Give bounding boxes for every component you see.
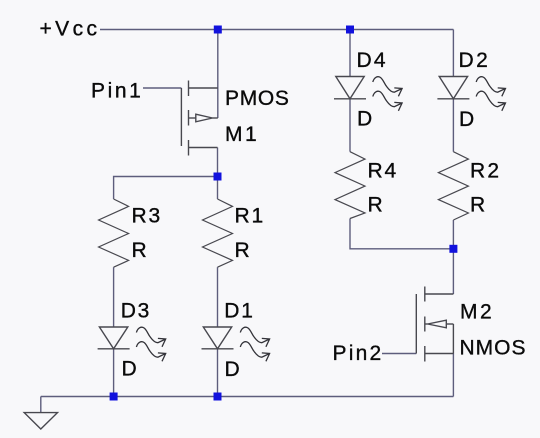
wire node A to R1 top	[217, 177, 219, 200]
svg-text:R: R	[470, 193, 485, 216]
diode D2 LED	[437, 77, 469, 99]
resistor R2	[438, 152, 468, 220]
transistor M1 PMOS	[181, 81, 217, 156]
node junction rail D3	[110, 393, 118, 401]
wire R3 bottom to D3	[113, 267, 115, 327]
wire node to M2 drain	[452, 249, 454, 294]
wire R1 bottom to D1	[217, 267, 219, 327]
svg-text:D: D	[459, 108, 474, 131]
svg-text:R3: R3	[132, 205, 162, 228]
node junction R4 R2 M2	[449, 245, 457, 253]
diode D4 LED	[334, 77, 366, 99]
svg-text:R: R	[368, 193, 383, 216]
wire Pin2 to M2 gate	[382, 353, 416, 355]
wire top Vcc rail	[100, 29, 453, 31]
svg-text:D: D	[122, 358, 137, 381]
node junction top M1	[214, 26, 222, 34]
D1 light arrows	[240, 327, 269, 361]
wire M2 source to ground rail	[452, 354, 454, 397]
ground	[24, 413, 57, 429]
svg-text:PMOS: PMOS	[225, 87, 290, 110]
svg-text:R: R	[132, 239, 147, 262]
svg-text:D2: D2	[459, 49, 491, 72]
wire D3 cathode to ground rail	[113, 349, 115, 397]
wire bottom ground rail	[41, 396, 454, 398]
wire R2 bottom to node	[452, 220, 454, 249]
svg-text:NMOS: NMOS	[460, 336, 527, 359]
svg-text:Pin1: Pin1	[91, 79, 143, 102]
wire R4 bottom to node	[350, 219, 453, 249]
D4 light arrows	[373, 77, 402, 111]
wire node A to R3 top	[114, 177, 218, 200]
wire ground stub	[40, 397, 42, 413]
wire D4 cathode to R4	[349, 99, 351, 152]
svg-text:M1: M1	[225, 123, 259, 146]
diode D3 LED	[98, 327, 130, 349]
D3 light arrows	[136, 327, 165, 361]
wire M1 drain from Vcc	[217, 30, 219, 119]
svg-text:D: D	[357, 108, 372, 131]
svg-text:D1: D1	[224, 300, 254, 323]
wire M1 source to node A	[217, 148, 219, 177]
wire Pin1 to M1 gate	[143, 87, 181, 89]
wire D2 cathode to R2	[452, 99, 454, 152]
svg-text:M2: M2	[460, 300, 494, 323]
svg-text:R1: R1	[235, 205, 265, 228]
resistor R4	[335, 152, 365, 219]
svg-text:D: D	[225, 358, 240, 381]
resistor R1	[203, 199, 233, 267]
wire D4 anode drop	[349, 30, 351, 77]
node junction rail D1	[214, 393, 222, 401]
node A junction M1 source	[214, 173, 222, 181]
transistor M2 NMOS	[416, 287, 453, 362]
wire D1 cathode to ground rail	[217, 349, 219, 397]
svg-text:D3: D3	[121, 299, 151, 322]
node junction top D4	[346, 26, 354, 34]
svg-text:R4: R4	[368, 159, 398, 182]
svg-text:D4: D4	[357, 49, 388, 72]
svg-text:+Vcc: +Vcc	[40, 17, 101, 40]
svg-text:R: R	[235, 239, 250, 262]
diode D1 LED	[202, 327, 234, 349]
resistor R3	[99, 199, 129, 267]
svg-text:R2: R2	[470, 159, 501, 182]
D2 light arrows	[476, 77, 505, 111]
wire D2 anode drop	[452, 30, 454, 77]
svg-text:Pin2: Pin2	[333, 342, 384, 365]
